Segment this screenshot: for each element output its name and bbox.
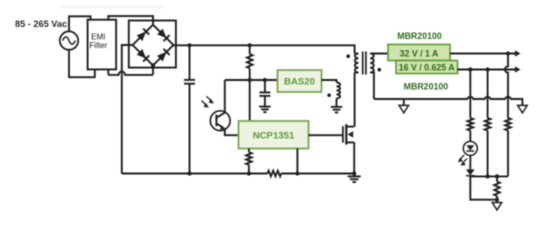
optocoupler LED U2b <box>463 141 477 155</box>
transformer secondary winding <box>370 54 388 100</box>
wire opto emitter to FB <box>225 128 239 135</box>
wire 16V output <box>458 66 521 72</box>
bridge diode D2 (top-right) <box>157 28 170 41</box>
svg-text:MBR20100: MBR20100 <box>397 31 442 41</box>
diode block BAS20 <box>278 70 322 92</box>
ground MOSFET source <box>348 176 361 182</box>
controller NCP1351 <box>239 121 309 149</box>
svg-text:32 V / 1 A: 32 V / 1 A <box>400 48 439 58</box>
bridge diode D4 (bottom-right) <box>157 49 170 62</box>
resistor R2 timing <box>246 149 252 174</box>
bridge diode D3 (left-bottom) <box>136 49 149 62</box>
wire AC bottom <box>69 50 95 77</box>
ground vcc cap <box>259 107 271 113</box>
node bulk cap ground <box>187 171 191 175</box>
resistor R5 <box>485 118 491 176</box>
node middle join <box>486 174 490 178</box>
wire BAS20 to aux <box>322 80 337 82</box>
svg-text:NCP1351: NCP1351 <box>253 130 295 141</box>
wire AC top <box>69 16 91 31</box>
return terminal arrow 3 <box>492 203 502 211</box>
svg-text:MBR20100: MBR20100 <box>404 82 449 92</box>
output block 32V <box>388 44 450 60</box>
node CS ground <box>295 171 299 175</box>
wire DC bus <box>173 45 354 53</box>
label MBR20100 top <box>397 31 442 41</box>
resistor R1 startup <box>247 45 253 121</box>
wire primary ground rail left <box>122 173 268 175</box>
capacitor C1 bulk <box>184 45 195 173</box>
capacitor C2 vcc <box>259 80 270 106</box>
wire 16V middle vertical <box>487 70 489 119</box>
node secondary polarity dot <box>378 68 382 72</box>
decor <box>62 6 162 8</box>
wire gate drive <box>309 134 343 136</box>
svg-text:Filter: Filter <box>89 41 107 50</box>
svg-text:BAS20: BAS20 <box>284 77 315 88</box>
light arrows out of LED <box>458 155 467 166</box>
wire secondary return <box>374 99 404 105</box>
node 16V tap B <box>486 67 490 71</box>
wire zener bottom loop <box>470 176 497 199</box>
node R2 ground <box>247 171 251 175</box>
node lineA resistor tap <box>495 174 499 178</box>
svg-text:16 V / 0.625 A: 16 V / 0.625 A <box>399 63 456 73</box>
ground aux winding <box>331 107 343 113</box>
node 16V tap A <box>468 67 472 71</box>
node bridge bottom junction <box>151 63 155 67</box>
resistor R7 <box>494 176 500 202</box>
zener D5 <box>466 169 475 175</box>
node bulk cap tap <box>187 43 191 47</box>
label 85 - 265 Vac <box>15 19 67 29</box>
resistor R6 <box>468 118 474 141</box>
bridge diode D1 (left-top) <box>136 28 149 41</box>
bridge rectifier box <box>129 21 176 68</box>
AC source V1 85-265 Vac <box>60 31 78 49</box>
wire node line A <box>470 175 508 177</box>
wire LED chain top <box>469 70 471 119</box>
node vcc resistor tap <box>248 43 252 47</box>
light arrows into opto <box>202 96 214 107</box>
optocoupler phototransistor U2a <box>210 111 230 131</box>
wire EMI bottom stub <box>108 65 153 75</box>
wire EMI top out <box>108 16 153 25</box>
wire secondary return 2 <box>404 97 523 105</box>
wire vcc node line <box>225 79 278 81</box>
node aux polarity dot <box>327 93 331 97</box>
transformer core <box>363 52 366 75</box>
wire bridge negative down <box>122 45 133 174</box>
transistor Q1 MOSFET <box>343 124 354 173</box>
wire opto collector <box>224 80 226 113</box>
transformer primary winding <box>355 54 359 127</box>
aux winding L-aux <box>337 82 341 106</box>
node vcc cap tap <box>263 78 267 82</box>
node vcc node <box>248 78 252 82</box>
wire NCP1351 CS pin <box>296 149 298 174</box>
bridge diamond wires <box>133 25 174 66</box>
label MBR20100 bottom <box>404 82 449 92</box>
return terminal arrow 2 <box>518 105 528 113</box>
svg-text:85 - 265 Vac: 85 - 265 Vac <box>15 19 67 29</box>
wire primary ground rail right <box>281 173 354 175</box>
resistor R4 <box>505 118 511 176</box>
node R7 bottom <box>495 198 499 202</box>
wire 32V output <box>450 50 521 56</box>
node primary polarity dot <box>346 54 350 58</box>
wire LED to zener <box>469 155 471 169</box>
node MOSFET source ground <box>352 171 356 175</box>
node 32V sense tap <box>506 51 510 55</box>
resistor R3 sense <box>268 171 282 177</box>
output block 16V <box>396 61 458 74</box>
return terminal arrow 1 <box>399 105 409 113</box>
wire 32V sense vertical <box>505 54 508 119</box>
wire EMI bottom out <box>108 72 153 75</box>
EMI filter block <box>88 20 117 70</box>
